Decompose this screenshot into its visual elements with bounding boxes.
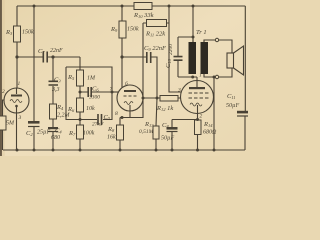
svg-text:C7: C7 <box>38 48 45 55</box>
svg-text:C11: C11 <box>227 93 236 100</box>
svg-text:27nF: 27nF <box>92 122 104 128</box>
svg-text:1M: 1M <box>87 76 96 82</box>
svg-text:7: 7 <box>110 87 113 93</box>
svg-text:R12 1k: R12 1k <box>156 105 173 112</box>
svg-text:0,51M: 0,51M <box>139 129 154 135</box>
svg-text:2,2M: 2,2M <box>57 113 71 119</box>
svg-text:R14: R14 <box>203 121 213 128</box>
svg-text:3: 3 <box>18 115 22 121</box>
svg-text:R9: R9 <box>110 26 118 33</box>
svg-text:C4: C4 <box>55 128 62 135</box>
svg-text:R10 33k: R10 33k <box>133 12 154 19</box>
svg-text:150k: 150k <box>127 27 139 33</box>
svg-text:C9 22nF: C9 22nF <box>144 45 167 52</box>
svg-text:R3: R3 <box>5 29 13 36</box>
svg-text:C5: C5 <box>104 114 111 121</box>
svg-text:2: 2 <box>2 89 5 95</box>
svg-text:R13: R13 <box>144 121 154 128</box>
svg-text:6: 6 <box>125 81 128 87</box>
svg-text:3,3: 3,3 <box>51 87 60 93</box>
svg-text:2: 2 <box>200 114 203 120</box>
svg-text:25µF: 25µF <box>37 130 50 136</box>
svg-text:C3: C3 <box>54 77 61 84</box>
svg-text:3: 3 <box>177 88 181 94</box>
svg-text:16k: 16k <box>107 135 116 141</box>
svg-text:50µF: 50µF <box>161 136 174 142</box>
svg-text:5M: 5M <box>6 121 15 127</box>
svg-text:C2: C2 <box>26 130 33 137</box>
svg-text:50µF: 50µF <box>226 103 239 109</box>
svg-text:C6: C6 <box>92 86 99 93</box>
svg-text:C10: C10 <box>165 58 172 68</box>
svg-text:22nF: 22nF <box>50 48 63 54</box>
svg-text:1: 1 <box>18 81 21 87</box>
svg-text:680: 680 <box>51 135 60 141</box>
svg-text:2200: 2200 <box>168 44 174 55</box>
svg-text:8: 8 <box>115 111 118 117</box>
svg-text:10k: 10k <box>86 106 95 112</box>
svg-text:R11 22k: R11 22k <box>145 31 165 38</box>
svg-text:R4: R4 <box>56 104 64 111</box>
svg-text:C8: C8 <box>162 122 169 129</box>
svg-text:100k: 100k <box>83 131 95 137</box>
svg-text:1: 1 <box>199 73 202 79</box>
svg-text:150k: 150k <box>22 30 34 36</box>
svg-text:Tr 1: Tr 1 <box>196 29 207 36</box>
svg-text:R5: R5 <box>67 74 75 81</box>
svg-text:3300: 3300 <box>88 95 100 101</box>
svg-text:R7: R7 <box>68 130 76 137</box>
svg-text:R8: R8 <box>107 126 115 133</box>
svg-text:680Ω: 680Ω <box>203 130 217 136</box>
